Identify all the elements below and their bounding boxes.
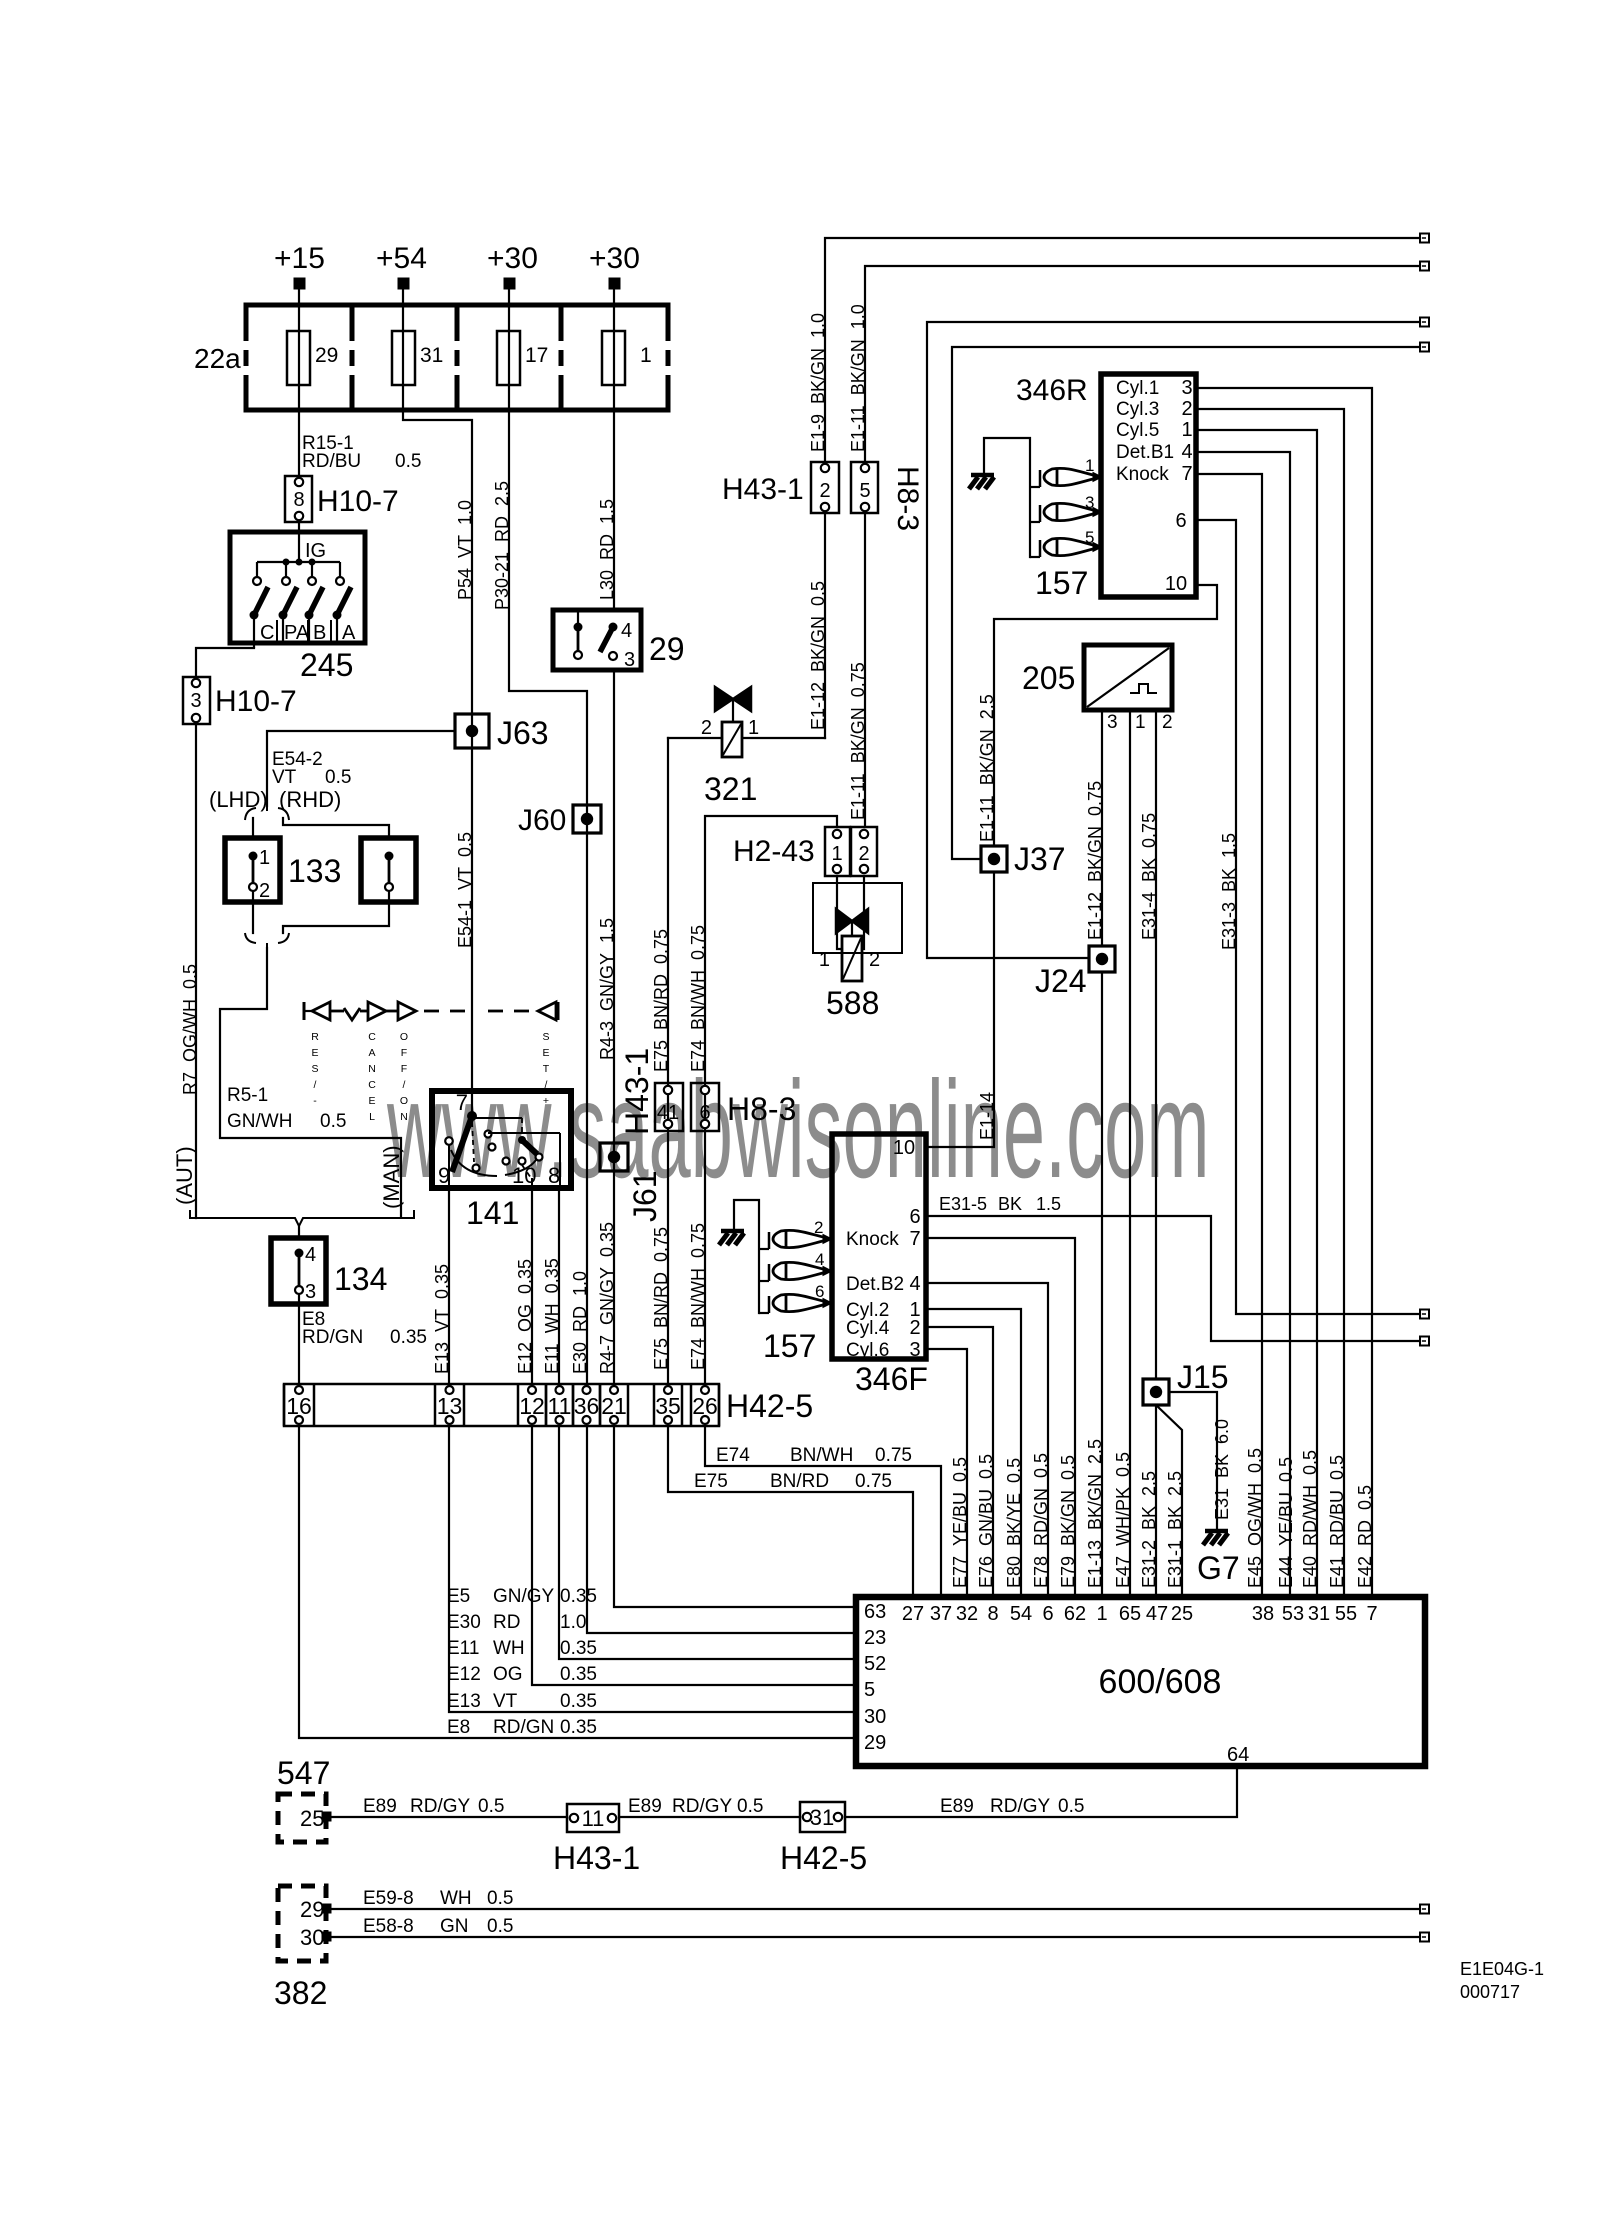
svg-text:5: 5 [1085, 528, 1094, 547]
merge marks below 133 [245, 933, 289, 950]
svg-text:35: 35 [655, 1393, 681, 1419]
svg-text:54: 54 [1010, 1603, 1032, 1625]
terminal E31-3 [1420, 1310, 1429, 1319]
svg-text:41: 41 [657, 1102, 679, 1124]
svg-text:RD/BU: RD/BU [302, 451, 361, 472]
wire label P54 VT 1.0 [455, 500, 475, 600]
svg-text:H8-3: H8-3 [891, 466, 924, 531]
label (LHD) [209, 787, 268, 812]
547 pin 25 label [300, 1806, 324, 1831]
157 rear pin 5 label [1085, 528, 1094, 547]
wire E1-13 BK/GN 2.5 (J24 to ECU pin1) [1101, 972, 1103, 1597]
svg-text:E74: E74 [716, 1445, 750, 1466]
wire E41 RD/BU (346R pin2 to ECU pin55) [1196, 409, 1344, 1597]
wire label R4-7 GN/GY 0.35 [597, 1222, 617, 1374]
wire label E8 RD/GN 0.35 horizontal [447, 1717, 597, 1738]
svg-text:E13: E13 [447, 1691, 481, 1712]
svg-text:GN/GY: GN/GY [493, 1586, 555, 1607]
svg-text:E31-2 BK 2.5: E31-2 BK 2.5 [1139, 1471, 1159, 1588]
wire E11 WH 0.35 (141 pin 8 to H42-5 pin 11) [558, 1188, 560, 1384]
wire label E31-5 BK 1.5 [939, 1194, 1061, 1214]
svg-text:1: 1 [748, 717, 759, 739]
svg-text:63: 63 [864, 1601, 886, 1623]
junction J60 [573, 805, 601, 833]
svg-text:T: T [543, 1063, 550, 1075]
split marks LHD/RHD [245, 800, 289, 820]
svg-text:1: 1 [640, 344, 652, 367]
svg-text:6: 6 [1175, 510, 1186, 532]
svg-text:E31-5: E31-5 [939, 1194, 987, 1214]
wire E5 GN/GY 0.35 (pin21 to ECU pin63) [614, 1426, 856, 1607]
svg-text:E78 RD/GN 0.5: E78 RD/GN 0.5 [1031, 1453, 1051, 1588]
svg-text:3: 3 [1085, 493, 1094, 512]
wire E59-8 WH 0.5 [331, 1908, 1420, 1910]
svg-text:F: F [401, 1063, 407, 1075]
svg-text:27: 27 [902, 1603, 924, 1625]
svg-text:205: 205 [1022, 660, 1075, 696]
588 pin 1 label [819, 949, 830, 971]
label 382 [274, 1975, 327, 2011]
wire E75 BN/RD (321 to H42-5 pin 35) [667, 738, 669, 1384]
svg-text:346F: 346F [855, 1361, 928, 1397]
wire label E75 BN/RD 0.75 horizontal [694, 1471, 892, 1492]
svg-text:588: 588 [826, 985, 879, 1021]
fuse 17 [497, 331, 520, 385]
ground G7 [1203, 1531, 1228, 1545]
label 245 [300, 647, 353, 683]
wire label E31-2 BK 2.5 [1139, 1471, 1159, 1588]
svg-text:E31-1 BK 2.5: E31-1 BK 2.5 [1165, 1471, 1185, 1588]
svg-text:346R: 346R [1016, 374, 1088, 407]
label SET/+ [542, 1031, 549, 1107]
label J37 [1014, 841, 1066, 877]
svg-text:0.35: 0.35 [560, 1691, 597, 1712]
svg-text:+30: +30 [487, 242, 538, 275]
wire label E11 WH 0.35 horizontal [447, 1638, 597, 1659]
wire label E31 BK 6.0 [1212, 1419, 1232, 1520]
wire label R15-1 RD/BU 0.5 [302, 433, 421, 472]
wire E45 OG/WH (346R pin7 to ECU pin38) [1196, 474, 1262, 1597]
switch 134 [271, 1238, 326, 1304]
wire label E44 YE/BU 0.5 [1276, 1457, 1296, 1588]
svg-text:J61: J61 [627, 1170, 663, 1222]
wire R7 OG/WH 0.5 [195, 724, 197, 1218]
wire E31-2 BK 2.5 (J15 to ECU pin47) [1155, 1405, 1157, 1597]
wire label E58-8 GN 0.5 [363, 1916, 513, 1937]
label 141 [466, 1195, 519, 1231]
svg-text:7: 7 [1181, 463, 1192, 485]
svg-text:J37: J37 [1014, 841, 1066, 877]
svg-text:0.75: 0.75 [875, 1445, 912, 1466]
wire H2-43 pin1 to 588 [837, 876, 842, 949]
junction J37 [981, 846, 1007, 872]
svg-text:0.5: 0.5 [487, 1888, 513, 1909]
svg-text:S: S [311, 1063, 318, 1075]
svg-text:E1-11 BK/GN 2.5: E1-11 BK/GN 2.5 [977, 694, 997, 842]
label H43-1 (rotated mid) [619, 1048, 655, 1135]
wire +54 feed through fuse 31 / P54 VT jog [403, 289, 472, 1091]
fuse 17 value label [525, 344, 548, 367]
label J61 [627, 1170, 663, 1222]
svg-text:E47 WH/PK 0.5: E47 WH/PK 0.5 [1113, 1452, 1133, 1588]
svg-text:J63: J63 [497, 715, 549, 751]
svg-text:Det.B1: Det.B1 [1116, 442, 1174, 463]
svg-text:0.35: 0.35 [560, 1664, 597, 1685]
svg-text:133: 133 [288, 853, 341, 889]
svg-text:E89: E89 [363, 1796, 397, 1817]
wire label E78 RD/GN 0.5 [1031, 1453, 1051, 1588]
wire 321 pin 1 to E1-12 [742, 737, 825, 739]
wire E47 WH/PK (205 pin1 to ECU pin65) [1129, 710, 1131, 1597]
svg-text:0.5: 0.5 [1058, 1796, 1084, 1817]
svg-text:E44 YE/BU 0.5: E44 YE/BU 0.5 [1276, 1457, 1296, 1588]
svg-text:(MAN): (MAN) [379, 1145, 404, 1209]
svg-text:1: 1 [1085, 456, 1094, 475]
svg-text:6: 6 [1042, 1603, 1053, 1625]
svg-text:31: 31 [810, 1805, 834, 1830]
svg-text:OG: OG [493, 1664, 523, 1685]
terminal square +30 a [504, 278, 515, 289]
connector H8-3 pin 6 [691, 1083, 719, 1131]
svg-text:10: 10 [893, 1137, 915, 1159]
svg-text:H2-43: H2-43 [733, 835, 815, 868]
svg-text:1: 1 [1096, 1603, 1107, 1625]
svg-text:E1-13 BK/GN 2.5: E1-13 BK/GN 2.5 [1085, 1439, 1105, 1588]
svg-text:-: - [313, 1095, 317, 1107]
157 front pin 2 label [814, 1218, 823, 1237]
svg-text:E89: E89 [940, 1796, 974, 1817]
svg-text:RD/GN: RD/GN [493, 1717, 554, 1738]
svg-text:R5-1: R5-1 [227, 1085, 268, 1106]
wire E1-14 (J37 to 346F pin10) [926, 872, 994, 1147]
svg-text:0.5: 0.5 [487, 1916, 513, 1937]
label 134 [334, 1261, 387, 1297]
junction J15 [1143, 1379, 1169, 1405]
label RES/- [311, 1031, 319, 1107]
svg-text:R: R [311, 1031, 319, 1043]
label J63 [497, 715, 549, 751]
connector H10-7 pin 8 [285, 476, 312, 522]
wire label E89 RD/GY 0.5 (middle) [628, 1796, 763, 1817]
svg-text:C: C [368, 1079, 376, 1091]
label 547 [277, 1755, 330, 1791]
label J15 [1177, 1359, 1229, 1395]
fuse 1 value label [640, 344, 652, 367]
svg-text:2: 2 [814, 1218, 823, 1237]
svg-text:0.35: 0.35 [390, 1327, 427, 1348]
wire E1-9 BK/GN 1.0 (line to terminal) [825, 238, 1420, 462]
bracket AUT/MAN [190, 1210, 414, 1226]
svg-text:3: 3 [305, 1281, 316, 1303]
fuse 31 [392, 331, 415, 385]
label (AUT) [172, 1146, 197, 1205]
svg-text:IG: IG [305, 540, 326, 562]
fuse 31 value label [420, 344, 443, 367]
svg-text:E1-9 BK/GN 1.0: E1-9 BK/GN 1.0 [808, 313, 828, 452]
wire label E1-12 BK/GN 0.5 [808, 581, 828, 730]
svg-text:RD: RD [493, 1612, 520, 1633]
watermark www.saabwisonline.com [386, 1052, 1209, 1207]
wire label E11 WH 0.35 [542, 1258, 562, 1374]
svg-text:65: 65 [1119, 1603, 1141, 1625]
svg-text:J60: J60 [518, 804, 566, 837]
label 346R [1016, 374, 1088, 407]
svg-text:141: 141 [466, 1195, 519, 1231]
label H10-7 (pin 3) [215, 685, 297, 718]
svg-text:64: 64 [1227, 1744, 1249, 1766]
wire from 133 RHD bottom [283, 902, 389, 933]
svg-text:25: 25 [1171, 1603, 1193, 1625]
svg-text:0.5: 0.5 [478, 1796, 504, 1817]
svg-text:52: 52 [864, 1653, 886, 1675]
205 pin 1 label [1135, 712, 1146, 733]
svg-text:600/608: 600/608 [1099, 1663, 1222, 1701]
wire label E54-2 VT 0.5 [272, 749, 351, 788]
svg-text:38: 38 [1252, 1603, 1274, 1625]
wire 346R pin10 shield to J37 [994, 585, 1217, 846]
svg-text:B: B [313, 622, 326, 644]
wire E1-12 BK/GN 0.75 (205 pin3 to J24) [1101, 710, 1103, 946]
wire label R4-3 GN/GY 1.5 [597, 918, 617, 1060]
label H2-43 [733, 835, 815, 868]
svg-text:Cyl.1: Cyl.1 [1116, 378, 1159, 399]
wire E42 RD (346R pin3 to ECU pin7) [1196, 388, 1372, 1597]
label H43-1 (bottom) [553, 1840, 640, 1876]
wire label E79 BK/GN 0.5 [1058, 1455, 1078, 1588]
node +15 label [274, 242, 325, 275]
svg-text:37: 37 [930, 1603, 952, 1625]
wire label E75 BN/RD 0.75 lower [651, 1227, 671, 1370]
svg-text:6: 6 [909, 1206, 920, 1228]
label H42-5 (bottom) [780, 1840, 867, 1876]
terminal E1-11 [1420, 262, 1429, 271]
wire label E74 BN/WH 0.75 lower [688, 1223, 708, 1370]
wire node line4 to J37 [952, 347, 1420, 859]
svg-text:Cyl.4: Cyl.4 [846, 1318, 890, 1339]
svg-text:5: 5 [864, 1679, 875, 1701]
valve 588 (throttle body) [813, 883, 902, 981]
wire E13 VT 0.35 (141 pin 9 to H42-5 pin 13) [448, 1188, 450, 1384]
label 157 (front) [763, 1328, 816, 1364]
label 133 [288, 853, 341, 889]
svg-text:H42-5: H42-5 [726, 1388, 813, 1424]
connector H8-3 pin 5 [851, 462, 878, 513]
label 600/608 [1099, 1663, 1222, 1701]
svg-text:32: 32 [956, 1603, 978, 1625]
svg-text:4: 4 [621, 620, 632, 642]
wire 321 pin 2 to E75 drop [668, 737, 722, 739]
svg-text:Knock: Knock [1116, 464, 1169, 485]
fuse 29 value label [315, 344, 338, 367]
wire label E12 OG 0.35 [515, 1259, 535, 1374]
wire E44 YE/BU (346R pin4 to ECU pin53) [1196, 452, 1290, 1597]
label 157 (rear) [1035, 565, 1088, 601]
svg-text:0.5: 0.5 [325, 767, 351, 788]
wire 245 C contact to H10-7 pin 3 [196, 648, 254, 677]
svg-text:22a: 22a [194, 343, 241, 374]
fuse 29 [287, 331, 310, 385]
svg-text:7: 7 [909, 1228, 920, 1250]
svg-text:13: 13 [437, 1393, 463, 1419]
svg-text:1: 1 [1181, 419, 1192, 441]
svg-text:E1E04G-1: E1E04G-1 [1460, 1959, 1544, 1979]
terminal E59-8 [1420, 1905, 1429, 1914]
svg-text:17: 17 [525, 344, 548, 367]
svg-text:2: 2 [869, 949, 880, 971]
svg-text:1: 1 [831, 843, 842, 865]
svg-text:Det.B2: Det.B2 [846, 1274, 904, 1295]
svg-text:2: 2 [1181, 398, 1192, 420]
wire label E31-4 BK 0.75 [1139, 813, 1159, 940]
connector H42-5 pin 31 [800, 1802, 845, 1832]
label 346F [855, 1361, 928, 1397]
svg-text:000717: 000717 [1460, 1982, 1520, 2002]
svg-text:E30 RD 1.0: E30 RD 1.0 [570, 1271, 590, 1374]
wire E1-12 BK/GN 0.5 (pin2 to 321) [824, 513, 826, 738]
fuse 1 [602, 331, 625, 385]
svg-text:29: 29 [864, 1732, 886, 1754]
label 205 [1022, 660, 1075, 696]
ground (157 front) [719, 1231, 744, 1245]
wire +30 feed through fuse 17 / P30-21 RD [509, 289, 587, 1384]
svg-text:VT: VT [272, 767, 297, 788]
svg-text:H10-7: H10-7 [317, 485, 399, 518]
wire 29 pin 3 down (R4-3) [613, 670, 615, 1384]
svg-text:2: 2 [1162, 712, 1173, 733]
svg-text:J15: J15 [1177, 1359, 1229, 1395]
wire R5-1 GN/WH 0.5 [220, 948, 401, 1216]
switch 29 [553, 610, 641, 671]
svg-text:36: 36 [574, 1393, 600, 1419]
svg-text:157: 157 [1035, 565, 1088, 601]
label 29 [649, 631, 685, 667]
svg-text:E58-8: E58-8 [363, 1916, 414, 1937]
label 588 [826, 985, 879, 1021]
svg-text:GN/WH: GN/WH [227, 1111, 292, 1132]
svg-text:12: 12 [519, 1393, 545, 1419]
wire label R7 OG/WH 0.5 [180, 964, 200, 1095]
svg-text:/: / [314, 1079, 317, 1091]
wire E75 lower (H42-5 pin35 to ECU pin27) [668, 1426, 913, 1597]
wire E8 RD/GN 0.35 (134 to H42-5 pin 16) [298, 1304, 300, 1384]
svg-text:RD/GY: RD/GY [672, 1796, 733, 1817]
label J24 [1035, 963, 1087, 999]
wire label E1-11 BK/GN 2.5 [977, 694, 997, 842]
wire label E1-11 BK/GN 0.75 [848, 662, 868, 820]
junction J63 [455, 714, 489, 748]
svg-text:1.0: 1.0 [560, 1612, 586, 1633]
svg-text:55: 55 [1335, 1603, 1357, 1625]
wire E89 RD/GY 0.5 (left) [331, 1816, 567, 1818]
svg-text:4: 4 [1181, 441, 1192, 463]
svg-text:P30-21 RD 2.5: P30-21 RD 2.5 [492, 481, 512, 610]
wire label E30 RD 1.0 horizontal [447, 1612, 586, 1633]
svg-text:11: 11 [548, 1393, 572, 1419]
svg-text:Cyl.3: Cyl.3 [1116, 399, 1159, 420]
321 pin 2 label [701, 717, 712, 739]
svg-text:E12: E12 [447, 1664, 481, 1685]
svg-text:0.35: 0.35 [560, 1717, 597, 1738]
connector H10-7 pin 3 [183, 677, 210, 724]
svg-text:0.5: 0.5 [395, 451, 421, 472]
157 rear pin 1 label [1085, 456, 1094, 475]
wire E78 RD/GN (346F pin4 to ECU pin6) [926, 1283, 1048, 1597]
svg-text:1: 1 [819, 949, 830, 971]
terminal square +54 [398, 278, 409, 289]
svg-text:29: 29 [315, 344, 338, 367]
wire label E31-3 BK 1.5 [1219, 833, 1239, 950]
switch 133 RHD half [361, 838, 416, 902]
svg-text:0.5: 0.5 [320, 1111, 346, 1132]
svg-text:E: E [311, 1047, 318, 1059]
wire label E31-1 BK 2.5 [1165, 1471, 1185, 1588]
wire label E89 RD/GY 0.5 (left) [363, 1796, 504, 1817]
wire ECU pin64 down [845, 1766, 1237, 1817]
svg-text:3: 3 [624, 649, 635, 671]
svg-text:L: L [369, 1111, 375, 1123]
svg-text:A: A [368, 1047, 375, 1059]
terminal E1-9 [1420, 234, 1429, 243]
svg-text:L30 RD 1.5: L30 RD 1.5 [597, 499, 617, 600]
svg-text:62: 62 [1064, 1603, 1086, 1625]
footer drawing number E1E04G-1 [1460, 1959, 1544, 1979]
svg-text:3: 3 [1181, 377, 1192, 399]
svg-text:R7 OG/WH 0.5: R7 OG/WH 0.5 [180, 964, 200, 1095]
svg-text:8: 8 [987, 1603, 998, 1625]
ground (157 rear) [969, 475, 994, 489]
wire E30 lower (pin36 to ECU pin23) [587, 1426, 856, 1633]
node +30 label (fuse 17) [487, 242, 538, 275]
svg-text:E11 WH 0.35: E11 WH 0.35 [542, 1258, 562, 1374]
svg-text:E1-11 BK/GN 1.0: E1-11 BK/GN 1.0 [848, 304, 868, 452]
svg-text:H10-7: H10-7 [215, 685, 297, 718]
svg-text:E1-11 BK/GN 0.75: E1-11 BK/GN 0.75 [848, 662, 868, 820]
wire bracket to 134 pin 4 [298, 1226, 300, 1238]
svg-text:547: 547 [277, 1755, 330, 1791]
svg-text:E80 BK/YE 0.5: E80 BK/YE 0.5 [1004, 1458, 1024, 1588]
svg-text:N: N [368, 1063, 376, 1075]
svg-text:245: 245 [300, 647, 353, 683]
svg-text:31: 31 [420, 344, 443, 367]
svg-text:6: 6 [815, 1282, 824, 1301]
wire label E75 BN/RD 0.75 upper [651, 929, 671, 1072]
switch 133 LHD half [225, 838, 280, 902]
wire label E42 RD 0.5 [1355, 1485, 1375, 1588]
wire E77 YE/BU (346F pin3 to ECU pin32) [926, 1349, 967, 1597]
wire label E5 GN/GY 0.35 [447, 1586, 597, 1607]
svg-text:4: 4 [909, 1273, 920, 1295]
svg-text:E11: E11 [447, 1638, 479, 1659]
svg-text:E77 YE/BU 0.5: E77 YE/BU 0.5 [950, 1457, 970, 1588]
svg-text:3: 3 [909, 1339, 920, 1361]
svg-text:E54-1 VT 0.5: E54-1 VT 0.5 [455, 832, 475, 948]
svg-text:H42-5: H42-5 [780, 1840, 867, 1876]
svg-text:Cyl.5: Cyl.5 [1116, 420, 1159, 441]
wire E80 BK/YE (346F pin1 to ECU pin54) [926, 1309, 1021, 1597]
157 front pin 4 label [815, 1250, 824, 1269]
svg-text:5: 5 [859, 480, 870, 502]
wire label E59-8 WH 0.5 [363, 1888, 513, 1909]
svg-text:2: 2 [819, 480, 830, 502]
wire E8 lower (pin16 to ECU pin29) [299, 1426, 856, 1738]
wire E31-4 BK (205 pin2 to J15) [1155, 710, 1157, 1379]
svg-text:7: 7 [456, 1090, 468, 1115]
svg-text:+54: +54 [376, 242, 427, 275]
svg-text:30: 30 [864, 1706, 886, 1728]
382 pin 30 label [300, 1925, 324, 1950]
wire label E41 RD/BU 0.5 [1327, 1455, 1347, 1588]
label (RHD) [279, 787, 341, 812]
